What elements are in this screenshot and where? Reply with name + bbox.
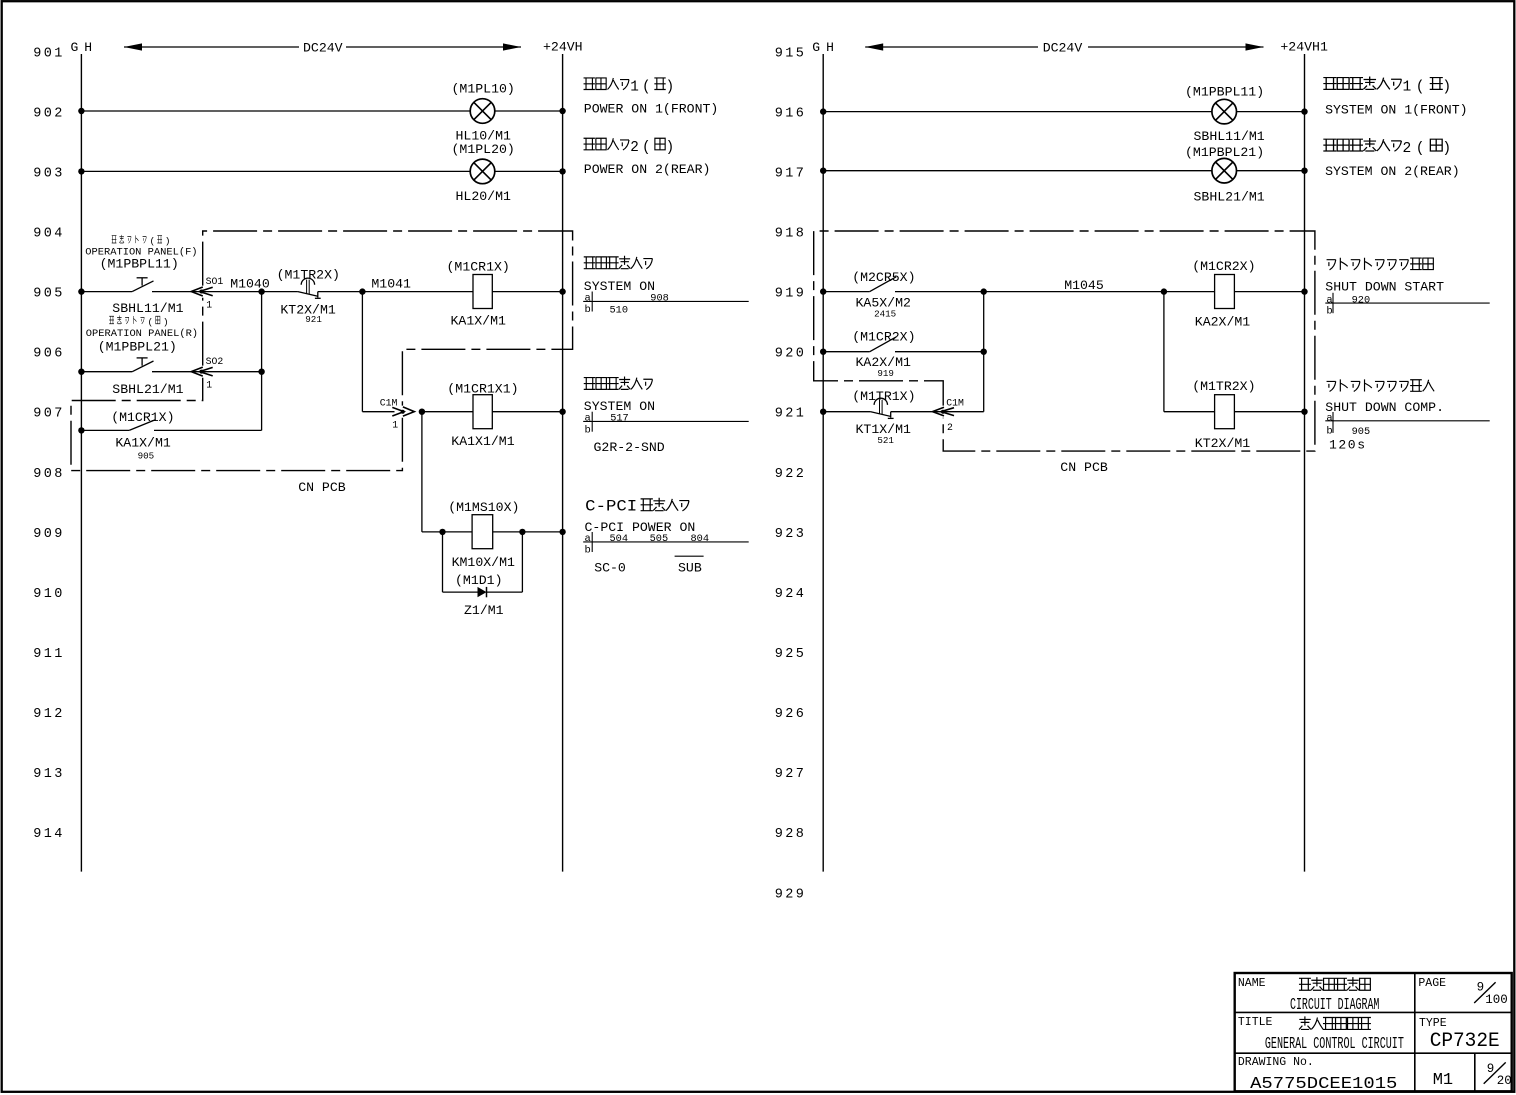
svg-text:2415: 2415 (874, 309, 896, 320)
svg-text:1: 1 (392, 420, 398, 431)
relay coil KA2X/M1 (M1CR2X) row 919 (1164, 259, 1308, 330)
aux contact KA1X/M1 (M1CR1X) ref 905 (78, 410, 261, 461)
net label SHUT DOWN START (row 919) ref 920 (1325, 258, 1489, 318)
bus label DC24V with arrows (right diagram) (865, 41, 1263, 56)
board boundary CN PCB (right diagram) (814, 231, 1315, 475)
wire: right rail +24VH1 (1304, 54, 1306, 872)
svg-text:(M1TR1X): (M1TR1X) (852, 389, 915, 404)
svg-text:): ) (666, 140, 675, 156)
svg-text:919: 919 (877, 368, 894, 379)
svg-text:(: ( (1416, 80, 1425, 96)
svg-text:908: 908 (650, 293, 669, 305)
wire row 903 (78, 168, 566, 174)
svg-text:SHUT DOWN START: SHUT DOWN START (1325, 280, 1444, 295)
svg-text:909: 909 (33, 527, 65, 542)
svg-text:M1041: M1041 (371, 276, 411, 291)
relay coil KA1X1/M1 (M1CR1X1) row 907 (419, 382, 566, 449)
svg-text:100: 100 (1485, 993, 1508, 1007)
node G H (left bus rails labels) (71, 40, 93, 55)
svg-text:914: 914 (33, 827, 65, 842)
svg-text:928: 928 (775, 827, 807, 842)
svg-text:KA1X1/M1: KA1X1/M1 (451, 434, 514, 449)
svg-text:DC24V: DC24V (303, 41, 343, 56)
wire row 916 (820, 108, 1308, 114)
svg-text:2: 2 (630, 140, 639, 156)
wire junction rows 919-921 (x=983.7) (981, 288, 987, 411)
svg-text:(M1CR2X): (M1CR2X) (852, 330, 915, 345)
svg-text:HL20/M1: HL20/M1 (456, 189, 511, 204)
wire: left rail G (left diagram) (80, 54, 82, 872)
svg-text:903: 903 (33, 166, 65, 181)
connector SO2 pin 1 (190, 356, 264, 391)
svg-text:924: 924 (775, 587, 807, 602)
svg-text:CP732E: CP732E (1430, 1030, 1500, 1053)
svg-text:927: 927 (775, 767, 807, 782)
svg-text:517: 517 (610, 413, 629, 425)
svg-text:M1040: M1040 (230, 276, 270, 291)
net label SYSTEM ON 2 (row 917) (1323, 138, 1459, 179)
svg-text:(M1CR1X1): (M1CR1X1) (447, 382, 518, 397)
svg-text:POWER ON 1(FRONT): POWER ON 1(FRONT) (584, 101, 719, 116)
svg-text:1: 1 (206, 380, 212, 391)
svg-text:DC24V: DC24V (1043, 41, 1083, 56)
svg-text:CIRCUIT DIAGRAM: CIRCUIT DIAGRAM (1290, 995, 1379, 1014)
svg-text:911: 911 (33, 647, 65, 662)
svg-text:905: 905 (138, 450, 155, 461)
svg-text:(M1PBPL21): (M1PBPL21) (98, 339, 177, 354)
svg-text:KT2X/M1: KT2X/M1 (1195, 436, 1250, 451)
svg-text:(: ( (1416, 141, 1425, 157)
svg-text:SYSTEM ON 1(FRONT): SYSTEM ON 1(FRONT) (1325, 103, 1467, 118)
svg-text:SO2: SO2 (206, 356, 224, 367)
svg-text:907: 907 (33, 407, 65, 422)
svg-text:912: 912 (33, 707, 65, 722)
svg-text:OPERATION PANEL(R): OPERATION PANEL(R) (86, 328, 198, 340)
svg-text:902: 902 (33, 106, 65, 121)
svg-text:SUB: SUB (678, 561, 702, 576)
svg-text:KA1X/M1: KA1X/M1 (115, 435, 170, 450)
lamp HL10/M1 (M1PL10) (452, 82, 515, 144)
svg-text:SC-0: SC-0 (594, 561, 626, 576)
svg-text:905: 905 (33, 287, 65, 302)
diode Z1/M1 (M1D1) (443, 532, 523, 618)
timer coil KT2X/M1 (M1TR2X) row 921 (1164, 379, 1308, 451)
svg-text:C-PCI POWER ON: C-PCI POWER ON (585, 520, 696, 535)
svg-text:20: 20 (1497, 1074, 1512, 1088)
svg-text:(M2CR5X): (M2CR5X) (852, 270, 915, 285)
svg-text:9: 9 (1477, 981, 1485, 995)
svg-text:KA1X/M1: KA1X/M1 (451, 313, 506, 328)
svg-text:(: ( (150, 236, 156, 247)
svg-text:C1M: C1M (380, 397, 398, 408)
svg-text:925: 925 (775, 647, 807, 662)
svg-text:TITLE: TITLE (1238, 1016, 1273, 1029)
svg-text:b: b (1326, 306, 1332, 318)
svg-text:916: 916 (775, 106, 807, 121)
contactor coil KM10X/M1 (M1MS10X) row 909 (439, 500, 566, 570)
wire: left rail G (right diagram) (822, 54, 824, 872)
wire row 917 (820, 168, 1308, 174)
net label: POWER ON 1 (row 902) (584, 78, 719, 116)
node: row labels 915-929 (775, 46, 807, 902)
net label SYSTEM ON (row 907) ref 517, G2R-2-SND (583, 376, 749, 454)
svg-text:804: 804 (691, 533, 710, 545)
svg-text:1: 1 (1403, 80, 1412, 96)
svg-text:C-PCI: C-PCI (585, 498, 637, 516)
svg-text:510: 510 (610, 305, 629, 317)
svg-text:KM10X/M1: KM10X/M1 (452, 555, 515, 570)
svg-text:919: 919 (775, 287, 807, 302)
lamp SBHL11/M1 (M1PBPL11) row 916 (1185, 84, 1265, 144)
lamp SBHL21/M1 (M1PBPL21) row 917 (1185, 145, 1265, 205)
svg-text:913: 913 (33, 767, 65, 782)
svg-text:a: a (585, 413, 591, 425)
node M1041 (359, 276, 411, 294)
svg-text:SYSTEM ON: SYSTEM ON (584, 279, 655, 294)
aux contact KA5X/M2 (M2CR5X) ref 2415 row 919 (820, 270, 984, 319)
svg-text:918: 918 (775, 227, 807, 242)
svg-text:a: a (1326, 412, 1332, 424)
svg-text:G: G (71, 40, 79, 55)
bus label DC24V with arrows (left diagram) (124, 41, 521, 56)
net label SYSTEM ON 1 (row 916) (1323, 76, 1467, 117)
svg-text:(M1PBPL11): (M1PBPL11) (100, 256, 179, 271)
svg-text:1: 1 (206, 300, 212, 311)
net label: POWER ON 2 (row 903) (584, 138, 711, 177)
svg-text:(M1CR1X): (M1CR1X) (111, 410, 174, 425)
title block (1235, 973, 1512, 1093)
svg-text:904: 904 (33, 227, 65, 242)
net label SHUT DOWN COMP. (row 921) ref 905, 120s (1325, 379, 1489, 452)
svg-text:C1M: C1M (946, 397, 964, 408)
svg-text:(M1CR1X): (M1CR1X) (447, 259, 510, 274)
svg-text:G: G (812, 40, 820, 55)
svg-text:+24VH1: +24VH1 (1280, 40, 1328, 55)
svg-text:1: 1 (630, 80, 639, 96)
svg-text:504: 504 (610, 533, 629, 545)
svg-text:PAGE: PAGE (1418, 977, 1446, 990)
svg-text:DRAWING No.: DRAWING No. (1238, 1056, 1314, 1069)
svg-text:A5775DCEE1015: A5775DCEE1015 (1250, 1074, 1397, 1093)
svg-text:KA2X/M1: KA2X/M1 (1195, 315, 1250, 330)
svg-text:CN PCB: CN PCB (298, 480, 346, 495)
svg-text:(M1PL10): (M1PL10) (452, 82, 515, 97)
svg-text:SBHL21/M1: SBHL21/M1 (1194, 190, 1265, 205)
node M1045 / wire row 919 to coil (984, 278, 1167, 295)
svg-text:905: 905 (1352, 426, 1371, 438)
connector C1M pin 1 (left) (362, 397, 414, 430)
net label C-PCI POWER ON (row 909) refs 504/505/804, SC-0, SUB (583, 498, 749, 576)
relay coil KA1X/M1 (M1CR1X) (362, 259, 565, 328)
node M1040 (230, 276, 270, 294)
svg-text:SBHL21/M1: SBHL21/M1 (112, 382, 183, 397)
svg-text:b: b (585, 545, 591, 557)
svg-text:901: 901 (33, 46, 65, 61)
wire junction 919-921 (x=1163.9) (1163, 292, 1165, 412)
svg-text:926: 926 (775, 707, 807, 722)
svg-text:): ) (666, 80, 675, 96)
svg-text:120s: 120s (1329, 437, 1367, 452)
svg-text:NAME: NAME (1238, 977, 1266, 990)
svg-text:906: 906 (33, 347, 65, 362)
timer contact KT1X/M1 (M1TR1X) ref 521 row 921 (820, 389, 931, 446)
wire: right rail +24VH (left diagram) (562, 54, 564, 872)
svg-text:H: H (84, 40, 92, 55)
svg-text:SYSTEM ON 2(REAR): SYSTEM ON 2(REAR) (1325, 164, 1460, 179)
svg-text:b: b (585, 304, 591, 316)
svg-text:H: H (826, 40, 834, 55)
svg-text:(M1TR2X): (M1TR2X) (1192, 379, 1255, 394)
svg-text:2: 2 (1403, 141, 1412, 157)
svg-text:(M1PBPL21): (M1PBPL21) (1185, 145, 1264, 160)
svg-text:921: 921 (775, 407, 807, 422)
svg-text:b: b (585, 424, 591, 436)
svg-text:908: 908 (33, 467, 65, 482)
net label SYSTEM ON (row 905) refs 908/510 (583, 256, 749, 317)
lamp HL20/M1 (M1PL20) (452, 142, 515, 204)
pushbutton SBHL11/M1 (M1PBPL11) operation panel front (78, 235, 197, 316)
pushbutton SBHL21/M1 (M1PBPL21) operation panel rear (78, 316, 198, 397)
svg-text:(M1TR2X): (M1TR2X) (277, 267, 340, 282)
svg-text:SO1: SO1 (206, 276, 224, 287)
svg-text:(: ( (148, 316, 154, 327)
svg-text:G2R-2-SND: G2R-2-SND (594, 440, 665, 455)
svg-text:(M1PBPL11): (M1PBPL11) (1185, 84, 1264, 99)
svg-text:921: 921 (305, 314, 322, 325)
svg-text:920: 920 (1352, 295, 1371, 307)
node G H (right diagram) (812, 40, 834, 55)
svg-text:a: a (585, 293, 591, 305)
svg-text:CN PCB: CN PCB (1060, 460, 1108, 475)
timer contact KT2X/M1 (M1TR2X) pin 921 (262, 267, 363, 324)
connector C1M pin 2 (right) (931, 397, 984, 433)
svg-text:SBHL11/M1: SBHL11/M1 (1194, 129, 1265, 144)
svg-text:POWER ON 2(REAR): POWER ON 2(REAR) (584, 162, 711, 177)
aux contact KA2X/M1 (M1CR2X) ref 919 row 920 (820, 330, 984, 379)
svg-text:2: 2 (947, 422, 953, 433)
connector SO1 pin 1 (190, 276, 261, 311)
svg-text:+24VH: +24VH (543, 40, 583, 55)
svg-text:): ) (165, 236, 171, 247)
svg-text:(M1CR2X): (M1CR2X) (1192, 259, 1255, 274)
svg-text:922: 922 (775, 467, 807, 482)
wire C1M junction down to row 909 (421, 412, 423, 532)
svg-text:SHUT DOWN COMP.: SHUT DOWN COMP. (1325, 400, 1444, 415)
svg-text:M1: M1 (1433, 1071, 1453, 1090)
svg-text:920: 920 (775, 347, 807, 362)
svg-text:(M1PL20): (M1PL20) (452, 142, 515, 157)
wire M1041 vertical to C1M (361, 292, 363, 412)
svg-text:): ) (1442, 80, 1451, 96)
svg-text:(M1MS10X): (M1MS10X) (448, 500, 519, 515)
svg-text:SBHL11/M1: SBHL11/M1 (112, 301, 183, 316)
svg-text:Z1/M1: Z1/M1 (464, 603, 504, 618)
svg-text:a: a (585, 533, 591, 545)
svg-text:(: ( (642, 140, 651, 156)
svg-text:(M1D1): (M1D1) (455, 573, 502, 588)
svg-text:(: ( (642, 80, 651, 96)
svg-text:b: b (1326, 425, 1332, 437)
svg-text:GENERAL CONTROL CIRCUIT: GENERAL CONTROL CIRCUIT (1265, 1034, 1404, 1053)
svg-text:505: 505 (650, 533, 669, 545)
svg-text:521: 521 (877, 435, 894, 446)
wire row 902 (78, 108, 566, 114)
svg-text:M1045: M1045 (1064, 278, 1104, 293)
svg-text:910: 910 (33, 587, 65, 602)
svg-text:): ) (163, 316, 169, 327)
wire M1040 vertical (261, 292, 263, 431)
svg-text:929: 929 (775, 887, 807, 902)
svg-text:TYPE: TYPE (1419, 1017, 1447, 1030)
svg-text:917: 917 (775, 166, 807, 181)
board boundary CN PCB (left diagram) (71, 231, 573, 495)
svg-text:): ) (1442, 141, 1451, 157)
node: row labels 901-914 (33, 46, 65, 842)
svg-text:923: 923 (775, 527, 807, 542)
svg-text:915: 915 (775, 46, 807, 61)
